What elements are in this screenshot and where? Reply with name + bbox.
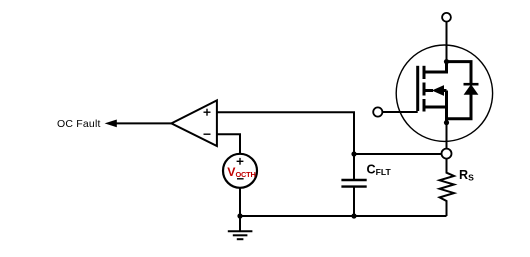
svg-text:OC Fault: OC Fault — [57, 118, 101, 130]
